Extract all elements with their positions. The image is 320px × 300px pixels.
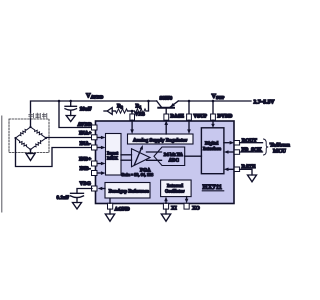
svg-text:Oscillator: Oscillator (165, 189, 184, 194)
transistor Q1 emitter arrow (170, 103, 175, 108)
ground under AGND (105, 214, 114, 221)
resistor R2 (116, 109, 128, 113)
block Bandgap Reference (105, 183, 150, 199)
pin AVDD (92, 125, 98, 130)
wire MUX to PGA upper (121, 154, 132, 156)
arrow INB- into MUX (98, 172, 102, 174)
svg-text:VAVDD: VAVDD (86, 93, 104, 100)
wire RATE (240, 169, 252, 175)
block ADC pentagon (154, 147, 185, 166)
wire R2 to node (128, 110, 135, 112)
svg-text:S8550: S8550 (160, 95, 173, 101)
wire VFB branch arrow line (104, 110, 107, 112)
PGA gain arrow (135, 148, 142, 165)
capacitor C2 0.1uF plates (71, 192, 84, 194)
arrow VSUP into regulator (188, 120, 190, 130)
wire XI down (165, 209, 167, 214)
left edge artifact line (1, 116, 3, 212)
arrow hollow left at VFB branch (107, 108, 112, 115)
ground under XI (161, 214, 170, 221)
svg-text:AVDD: AVDD (78, 122, 93, 128)
wire PD_SCK (240, 151, 263, 153)
transistor Q1 S8550 base bar (158, 107, 174, 109)
pin DOUT (234, 141, 239, 146)
brace MCU (264, 139, 269, 155)
block Analog Supply Regulator (128, 134, 194, 144)
arrow DOUT out (224, 142, 229, 144)
wire bridge right node to INA+ (46, 137, 92, 139)
ground under RATE (248, 175, 257, 182)
bridge resistor left-top arm (16, 127, 31, 138)
svg-text:DVDD: DVDD (217, 114, 232, 120)
transistor Q1 collector lead (157, 101, 162, 107)
svg-text:Interface: Interface (203, 146, 221, 151)
svg-text:10uF: 10uF (80, 107, 93, 113)
wire DOUT (240, 142, 263, 144)
arrow XI into oscillator (165, 200, 167, 203)
pin INA- (92, 145, 98, 150)
wire to R2 (112, 110, 115, 112)
svg-text:XI: XI (171, 205, 177, 211)
block Internal Oscillator (161, 180, 192, 197)
wire DVDD drop (212, 101, 214, 114)
arrow INA+ into MUX (98, 137, 102, 139)
svg-text:R2: R2 (117, 103, 123, 109)
svg-text:PD_SCK: PD_SCK (242, 147, 262, 153)
svg-text:ADC: ADC (169, 157, 180, 163)
label sensor 传感器 (29, 113, 47, 118)
wire VFB pin drop (131, 111, 133, 114)
wire bridge left node to INA- route (16, 138, 93, 167)
svg-text:Bandgap Reference: Bandgap Reference (109, 189, 149, 195)
svg-text:Internal: Internal (167, 183, 184, 188)
transistor Q1 emitter lead (170, 101, 178, 107)
resistor R1 (135, 109, 147, 113)
svg-text:2.7~5.5V: 2.7~5.5V (254, 99, 275, 105)
block Digital Interface (201, 128, 224, 174)
pin VBG (92, 186, 98, 191)
pin XO (184, 203, 189, 209)
bridge resistor top-right arm (31, 127, 47, 138)
chip HX711 body (96, 121, 235, 204)
pin BASE (164, 114, 169, 120)
svg-text:HX711: HX711 (203, 184, 222, 191)
svg-text:DOUT: DOUT (242, 138, 258, 144)
svg-text:MCU: MCU (273, 148, 286, 154)
arrow VFB into regulator (131, 120, 133, 130)
arrow PD_SCK in (228, 151, 233, 153)
block Input MUX (106, 134, 122, 176)
node junction AVDD drop (58, 100, 61, 103)
pin INB+ (92, 161, 98, 166)
pin INB- (92, 171, 98, 176)
pin VSUP (187, 114, 192, 120)
svg-text:BASE: BASE (170, 114, 184, 120)
node bridge right (45, 137, 47, 139)
op-amp PGA triangle (132, 149, 151, 167)
ground under C1 (66, 116, 75, 122)
node bridge bottom (29, 148, 31, 150)
svg-text:24 bit ΣΔ: 24 bit ΣΔ (164, 152, 183, 158)
capacitor C1 10uF plates (65, 105, 77, 107)
wire right rail VSUP (178, 100, 251, 102)
svg-text:INB-: INB- (80, 166, 91, 172)
node junction DVDD (212, 100, 215, 103)
pin AGND (108, 203, 113, 209)
svg-text:RATE: RATE (242, 164, 257, 170)
pin DVDD (211, 114, 216, 120)
node bridge top (29, 126, 31, 128)
node junction VSUP (188, 100, 191, 103)
wire AGND stub (109, 198, 111, 203)
transistor Q1 base lead (165, 108, 167, 114)
arrow XO from oscillator (186, 197, 188, 200)
sensor dashed box (9, 119, 49, 153)
arrow INA- into MUX (98, 147, 102, 149)
svg-text:0.1uF: 0.1uF (57, 195, 70, 201)
svg-text:Analog Supply Regulator: Analog Supply Regulator (133, 137, 188, 143)
arrow bandgap to VBG (102, 188, 106, 190)
svg-text:VSUP: VSUP (212, 93, 225, 100)
svg-text:R1: R1 (136, 103, 142, 109)
ground under C2 (73, 203, 82, 210)
node junction 10uF (69, 100, 72, 103)
pin INA+ (92, 135, 98, 140)
node bridge left (14, 137, 16, 139)
node VFB junction (131, 110, 134, 113)
svg-text:VSUP: VSUP (193, 114, 207, 120)
svg-text:VBG: VBG (80, 181, 91, 187)
svg-text:INB+: INB+ (79, 157, 91, 163)
arrow INB+ into MUX (98, 163, 102, 165)
wire R1 up to rail (146, 101, 149, 111)
wire PGA to ADC lower (147, 159, 162, 161)
ground under bridge (26, 154, 35, 161)
wire top rail V_AVDD (31, 101, 157, 127)
wire AVDD drop (59, 101, 92, 128)
wire AGND down (109, 209, 111, 214)
svg-text:INA-: INA- (80, 141, 92, 147)
capacitor C1 10uF lead (70, 101, 72, 106)
pin XI (163, 203, 168, 209)
wire ADC to digital interface (185, 155, 202, 157)
wire PGA to ADC upper (147, 151, 162, 153)
arrow DVDD into digital interface (212, 120, 214, 124)
svg-text:MUX: MUX (107, 156, 119, 161)
capacitor C1 lower lead (70, 110, 72, 115)
bridge resistor right-bottom arm (31, 138, 47, 150)
bridge resistor bottom-left arm (16, 138, 31, 150)
svg-text:XO: XO (192, 205, 200, 211)
svg-text:AGND: AGND (115, 206, 131, 212)
arrow RATE in (228, 168, 233, 170)
svg-text:INA+: INA+ (79, 131, 92, 137)
pin PD_SCK (234, 150, 239, 155)
svg-text:VFB: VFB (135, 112, 146, 118)
wire MUX to PGA lower (121, 159, 132, 161)
pin RATE (234, 167, 239, 172)
wire VSUP drop (188, 101, 190, 114)
node junction R1 rail (147, 100, 150, 103)
arrow BASE out of regulator (165, 125, 167, 135)
capacitor C2 lower lead (76, 198, 78, 203)
wire bridge bottom to ground (30, 150, 32, 154)
wire VBG to cap (77, 189, 92, 194)
pin VFB (130, 114, 135, 120)
svg-text:Gain = 32, 64, 128: Gain = 32, 64, 128 (121, 172, 153, 177)
